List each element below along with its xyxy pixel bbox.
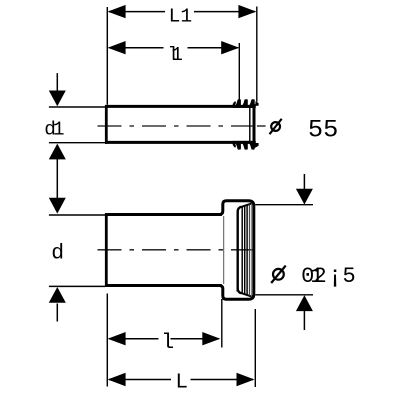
svg-text:¡: ¡ xyxy=(327,261,343,291)
extension line, right for l1 xyxy=(238,43,240,101)
socket taper line 1 xyxy=(241,207,243,294)
thread tooth top row, leading ramp xyxy=(233,101,236,108)
arrowhead l left xyxy=(108,332,126,345)
dimension line l1, left segment xyxy=(109,47,164,49)
socket diameter lower arrowhead (pointing up) xyxy=(296,295,313,311)
svg-text:55: 55 xyxy=(308,115,338,144)
top pipe: bottom edge xyxy=(105,141,256,144)
d lower arrow tail xyxy=(56,304,58,322)
centerline stub right of pipe end face xyxy=(257,125,266,127)
d1 lower arrowhead (pointing up) xyxy=(49,144,66,160)
diameter symbol of socket dimension xyxy=(273,269,284,280)
thread tooth bottom row, leading ramp xyxy=(233,141,236,148)
extension line d1 bottom xyxy=(49,142,105,144)
bottom pipe: top edge xyxy=(105,213,222,216)
top pipe: right end face xyxy=(253,104,256,148)
bottom pipe: bottom edge xyxy=(105,284,222,287)
svg-text:1: 1 xyxy=(171,44,183,66)
socket taper line 3 xyxy=(246,205,248,295)
top pipe: top edge xyxy=(105,105,256,108)
extension line d top xyxy=(49,214,105,216)
d1 upper arrowhead (pointing down) xyxy=(49,91,66,107)
svg-text:l: l xyxy=(161,331,174,355)
socket taper line 4 xyxy=(248,204,250,296)
dimension line L, right segment xyxy=(191,379,254,381)
chamfer line top xyxy=(239,203,253,208)
dimension line l1, right segment xyxy=(188,47,239,49)
svg-text:L: L xyxy=(175,371,188,394)
thread tooth top row, end nub xyxy=(255,101,258,106)
svg-text:2: 2 xyxy=(314,264,327,289)
centerline of top pipe (dash-dot) xyxy=(98,125,253,127)
svg-text:L1: L1 xyxy=(169,5,193,27)
d upper arrowhead (pointing down) xyxy=(49,198,66,214)
extension line, right for L xyxy=(254,309,256,387)
arrowhead l1 left xyxy=(108,41,126,54)
arrowhead l right xyxy=(202,332,220,345)
socket mouth inner edge bottom hook xyxy=(238,289,241,294)
dimension line L1, left segment xyxy=(109,11,165,13)
top pipe: inner edge line near right end xyxy=(249,108,251,141)
centerline of bottom pipe (dash-dot) xyxy=(98,249,255,251)
extension line, right for L1 xyxy=(256,7,258,102)
extension line, left shared by l and L xyxy=(106,294,108,387)
socket taper line 5 xyxy=(250,203,252,296)
thread tooth top row, tooth 1 xyxy=(234,99,241,108)
thread tooth bottom row, end nub xyxy=(255,143,258,148)
extension line, right for l xyxy=(221,299,223,348)
thread tooth top row, tooth 3 xyxy=(248,99,255,108)
thread tooth bottom row, tooth 1 xyxy=(234,141,241,150)
arrowhead L1 right xyxy=(238,5,256,18)
thread tooth top row, tooth 2 xyxy=(241,99,248,108)
extension line d1 top xyxy=(49,106,105,108)
arrowhead L1 left xyxy=(108,5,126,18)
d1 upper arrow tail xyxy=(56,73,58,91)
chamfer line bottom xyxy=(239,292,253,297)
bottom pipe: left end cap xyxy=(105,213,108,287)
arrowhead L left xyxy=(108,373,126,386)
socket bell outline xyxy=(220,201,254,300)
thread tooth bottom row, tooth 2 xyxy=(241,141,248,150)
dimension line l, right segment xyxy=(171,338,220,340)
socket taper line 2 xyxy=(244,206,246,294)
thread tooth bottom row, tooth 3 xyxy=(248,141,255,150)
socket diameter lower arrow tail xyxy=(303,310,305,330)
dimension line l, left segment xyxy=(109,338,159,340)
extension line d bottom xyxy=(49,285,105,287)
svg-text:d: d xyxy=(51,241,64,265)
socket diameter upper arrow tail xyxy=(303,174,305,190)
dimension line L, left segment xyxy=(109,379,171,381)
socket diameter upper arrowhead (pointing down) xyxy=(296,189,313,205)
arrowhead l1 right xyxy=(221,41,239,54)
top pipe: left end cap xyxy=(105,105,108,144)
dimension line L1, right segment xyxy=(194,11,255,13)
arrowhead L right xyxy=(237,373,255,386)
shared stem between d1 lower arrow and d upper arrow xyxy=(56,158,58,198)
extension line, left shared by L1 and l1 xyxy=(106,7,108,105)
socket mouth inner edge with top hook xyxy=(238,207,241,292)
svg-text:5: 5 xyxy=(343,264,356,289)
d lower arrowhead (pointing up) xyxy=(49,287,66,303)
extension line socket diameter top xyxy=(255,204,313,206)
extension line socket diameter bottom xyxy=(255,294,313,296)
svg-text:1: 1 xyxy=(53,118,65,140)
joint line between pipe and socket xyxy=(223,216,225,284)
diameter symbol of pipe dimension 55 xyxy=(271,122,280,131)
